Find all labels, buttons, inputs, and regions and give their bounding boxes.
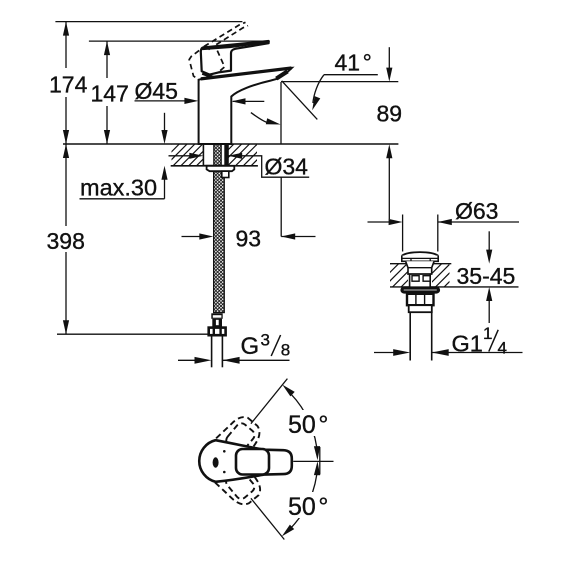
svg-text:4: 4: [498, 339, 507, 358]
spout outlet reference vertical: [280, 82, 282, 144]
svg-text:8: 8: [281, 341, 290, 360]
svg-text:Ø34: Ø34: [265, 153, 309, 179]
svg-text:G1: G1: [452, 331, 483, 357]
flexible hose below deck: [214, 166, 225, 313]
svg-text:Ø45: Ø45: [135, 78, 178, 104]
svg-text:50°: 50°: [288, 493, 328, 521]
threaded stud: [224, 144, 227, 166]
svg-text:max.30: max.30: [80, 175, 157, 201]
flow direction line 41 deg: [282, 81, 318, 120]
mounting shank through deck: [203, 144, 228, 165]
dimension G1 1/4 thread: [374, 324, 523, 358]
dimension diameter 34: [169, 153, 310, 180]
svg-text:89: 89: [377, 101, 403, 127]
handle top view rotated +50 (dashed): [202, 409, 269, 478]
faucet body and spout: [199, 68, 292, 144]
svg-text:147: 147: [91, 81, 129, 107]
svg-text:1: 1: [483, 324, 492, 343]
handle top view rotated -50 (dashed): [202, 444, 269, 513]
center reference line: [293, 460, 333, 462]
flexible hose through deck: [214, 144, 221, 166]
svg-text:174: 174: [49, 72, 88, 98]
hose crimp collar: [211, 313, 222, 327]
countertop deck (drain): [367, 264, 519, 287]
dimension 50 deg lower: [282, 461, 332, 536]
handle lever and base (solid): [201, 41, 269, 77]
hose connector nut: [209, 328, 226, 336]
diagonal 50 deg lower: [251, 498, 284, 539]
drain valve neck: [406, 261, 435, 274]
svg-text:3: 3: [261, 331, 270, 350]
G3/8 connector tube: [212, 335, 223, 367]
dimension 398: [47, 144, 209, 334]
dimension G 3/8 thread: [178, 331, 290, 364]
countertop deck (faucet): [63, 144, 398, 166]
svg-text:G: G: [241, 333, 260, 360]
drain locknut: [407, 294, 434, 305]
svg-text:41°: 41°: [335, 50, 372, 76]
drain tailpipe: [410, 312, 432, 360]
svg-text:50°: 50°: [288, 411, 328, 439]
angle tick: [319, 447, 321, 475]
svg-text:93: 93: [236, 226, 262, 252]
mounting nut on stud: [222, 171, 229, 177]
svg-text:Ø63: Ø63: [455, 198, 498, 224]
dimension 41 degrees: [312, 50, 378, 111]
dimension 89: [281, 47, 402, 219]
mounting flange: [207, 166, 235, 171]
dimension max.30 deck thickness: [80, 113, 168, 201]
dimension 35-45 deck thickness: [457, 231, 516, 323]
dimension 93: [182, 177, 316, 251]
svg-text:35-45: 35-45: [457, 263, 516, 289]
dimension 50 deg upper: [282, 385, 332, 461]
dimension 147: [89, 41, 269, 144]
diagonal 50 deg upper: [251, 379, 288, 424]
handle raised position (dashed): [189, 22, 248, 79]
lever arc arrow: [251, 113, 281, 125]
svg-text:398: 398: [47, 228, 85, 254]
handle top view (solid): [199, 440, 292, 482]
drain valve threaded body: [410, 274, 431, 287]
drain valve cap: [402, 252, 438, 261]
drain collar: [409, 305, 432, 312]
dimension 174: [49, 22, 242, 144]
drain flange washer: [402, 288, 439, 292]
dimension diameter 45: [135, 78, 265, 105]
dimension diameter 63: [368, 198, 520, 252]
